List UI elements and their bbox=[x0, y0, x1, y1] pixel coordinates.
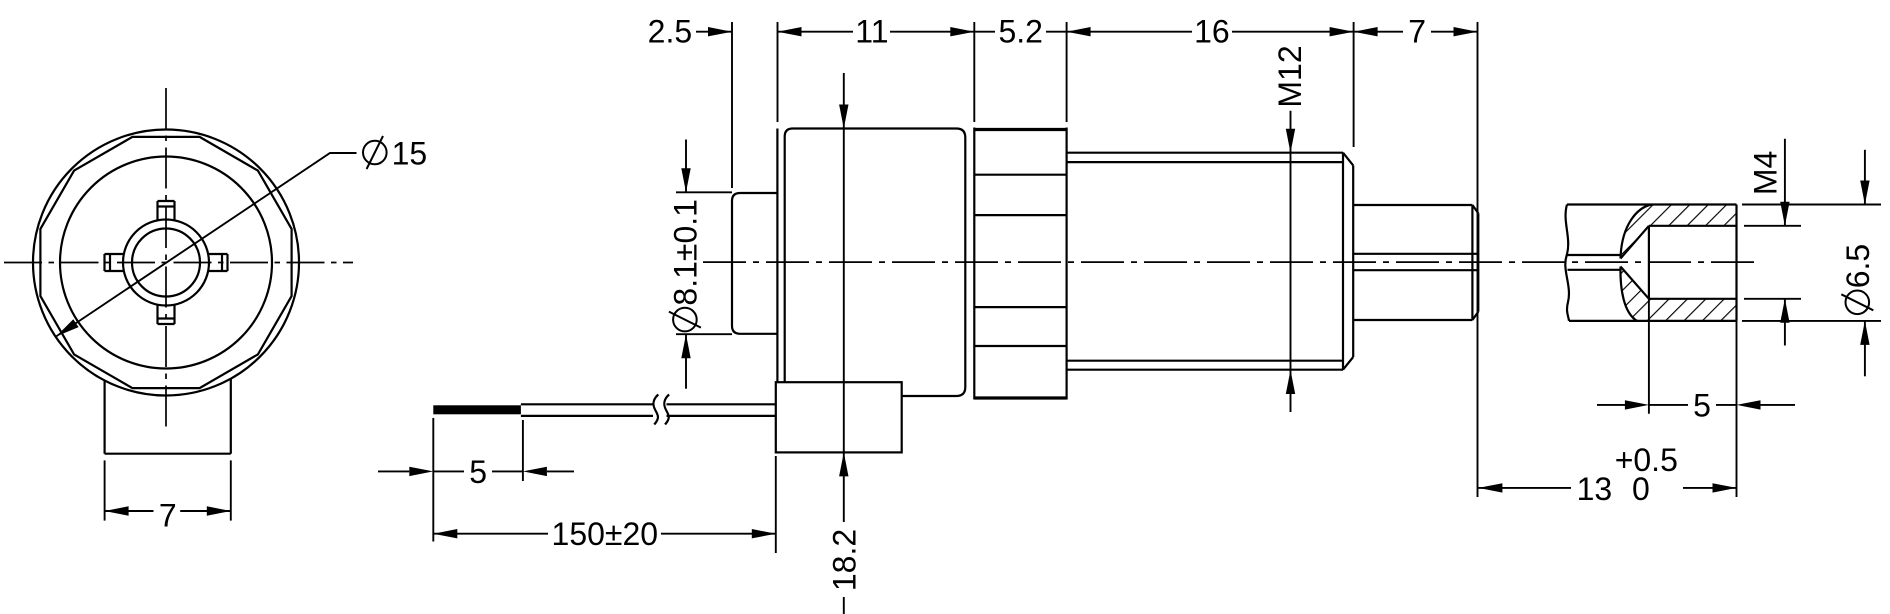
svg-text:5.2: 5.2 bbox=[998, 14, 1042, 50]
svg-text:M12: M12 bbox=[1272, 45, 1308, 107]
svg-text:7: 7 bbox=[1408, 14, 1426, 50]
svg-text:M4: M4 bbox=[1747, 151, 1783, 195]
svg-text:5: 5 bbox=[1693, 387, 1711, 423]
svg-text:6.5: 6.5 bbox=[1840, 244, 1876, 288]
svg-text:15: 15 bbox=[392, 136, 428, 172]
svg-text:16: 16 bbox=[1194, 14, 1230, 50]
svg-text:18.2: 18.2 bbox=[826, 529, 862, 591]
svg-text:2.5: 2.5 bbox=[648, 14, 692, 50]
svg-text:150±20: 150±20 bbox=[552, 516, 659, 552]
svg-text:8.1±0.1: 8.1±0.1 bbox=[667, 199, 703, 306]
svg-text:13: 13 bbox=[1577, 471, 1613, 507]
svg-text:5: 5 bbox=[469, 454, 487, 490]
svg-text:7: 7 bbox=[159, 498, 177, 534]
svg-text:+0.5: +0.5 bbox=[1615, 442, 1678, 478]
svg-text:11: 11 bbox=[855, 14, 888, 50]
